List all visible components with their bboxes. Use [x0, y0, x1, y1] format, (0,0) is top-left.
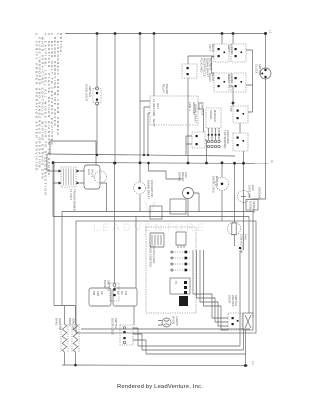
svg-text:IGNITORS: IGNITORS — [226, 130, 230, 144]
wire L2 drop from lock — [245, 330, 247, 366]
node junction oven light on L1 rail — [96, 32, 99, 35]
svg-text:L2: L2 — [251, 362, 255, 366]
svg-text:5W: 5W — [92, 291, 96, 296]
svg-text:10B: 10B — [96, 291, 100, 296]
svg-text:5. VERIFY PROPER OPERATION AFT: 5. VERIFY PROPER OPERATION AFTER SERVICI… — [34, 33, 38, 174]
clock — [255, 64, 272, 79]
transformer feed wires — [47, 154, 59, 216]
svg-text:OVEN LIGHT: OVEN LIGHT — [85, 84, 89, 102]
wire staircase to fan — [149, 163, 183, 179]
wire drop x140 — [139, 34, 141, 212]
gas valve keyhole — [80, 165, 107, 212]
svg-text:3Y: 3Y — [116, 291, 120, 295]
cooling fan — [238, 162, 256, 250]
wire row3 to row4 — [240, 123, 244, 163]
svg-text:REAR: REAR — [211, 44, 215, 52]
connector box A1 — [89, 288, 111, 306]
svg-text:BLOWER: BLOWER — [209, 58, 213, 70]
wire staircase right — [246, 50, 253, 112]
wire feed left front — [232, 34, 234, 45]
svg-text:SWITCH: SWITCH — [114, 318, 118, 329]
svg-text:BOARD: BOARD — [165, 84, 169, 94]
oven control dashed box — [146, 227, 196, 313]
switch left rear — [214, 44, 229, 62]
wire drop x154 into relay board — [153, 34, 155, 97]
connector dark cluster — [179, 296, 188, 306]
svg-text:L1: L1 — [152, 113, 156, 117]
switch lower right — [233, 133, 248, 151]
wire link left column — [212, 57, 215, 73]
wire L2 rail — [62, 364, 248, 367]
svg-text:L1: L1 — [269, 31, 273, 35]
svg-text:GROUND: GROUND — [258, 187, 262, 200]
transformer — [59, 167, 80, 211]
harness top wires — [53, 212, 253, 319]
wire x136 — [135, 216, 137, 288]
door lock motor — [212, 161, 229, 221]
connector comb block — [150, 233, 164, 247]
harness verticals to lock — [193, 250, 228, 330]
convection fan — [227, 162, 247, 253]
svg-text:(CLOCK) ERC: (CLOCK) ERC — [152, 245, 156, 264]
node junction x140 neutral — [139, 161, 142, 164]
switch right rear — [214, 73, 229, 92]
node junction x154 top — [153, 32, 156, 35]
wire feed left rear — [221, 34, 223, 45]
svg-text:GAS: GAS — [87, 169, 91, 175]
node junction x115 top — [114, 32, 117, 35]
door lock switch assembly — [228, 313, 253, 330]
svg-text:OVEN CONTROL: OVEN CONTROL — [149, 245, 153, 268]
node junction L1 corner — [264, 32, 267, 35]
oven lamp — [158, 316, 179, 327]
vent box — [246, 200, 258, 213]
svg-text:TRANSFORMER: TRANSFORMER — [73, 189, 77, 211]
svg-text:LEADVENTURE: LEADVENTURE — [93, 222, 207, 234]
broil ignitor — [68, 306, 79, 366]
svg-text:FRONT: FRONT — [230, 45, 234, 55]
svg-text:OVEN: OVEN — [249, 201, 253, 209]
svg-text:N: N — [270, 161, 274, 163]
svg-text:DOOR LOCK: DOOR LOCK — [111, 318, 115, 335]
svg-text:2R: 2R — [100, 291, 104, 295]
node L2 junction — [244, 364, 247, 367]
connector rows — [170, 251, 190, 272]
control box outer — [76, 221, 256, 333]
svg-text:DOWN DRAFT: DOWN DRAFT — [194, 104, 198, 123]
notice text block — [34, 33, 63, 196]
svg-text:1W: 1W — [124, 291, 128, 296]
left feeder to ignitors — [54, 163, 76, 306]
wire L1 top rail — [65, 33, 266, 35]
svg-text:FAN: FAN — [184, 172, 188, 178]
svg-text:SPARK: SPARK — [209, 110, 213, 120]
connector rect B — [176, 232, 186, 248]
svg-text:LINE 1: LINE 1 — [188, 102, 192, 111]
wire loop above valve — [50, 141, 96, 165]
svg-text:NEUT: NEUT — [152, 119, 156, 127]
node junction x115 neutral — [114, 162, 117, 165]
svg-text:6G: 6G — [120, 291, 124, 295]
svg-text:DOOR: DOOR — [103, 280, 107, 288]
svg-text:FAN: FAN — [251, 185, 255, 191]
svg-text:MODULE: MODULE — [213, 110, 217, 122]
oven light switch — [85, 84, 102, 105]
node junction x140 top — [139, 32, 142, 35]
svg-text:VALVE: VALVE — [91, 169, 95, 178]
wire row2 to row3 — [229, 86, 233, 106]
bake ignitor — [55, 306, 69, 365]
wire drop to lock assembly — [239, 250, 241, 313]
downdraft fan switch — [186, 104, 208, 164]
svg-text:DOWN DRAFT: DOWN DRAFT — [147, 180, 151, 199]
wire neutral rail — [53, 163, 269, 164]
svg-text:MOTOR: MOTOR — [215, 176, 219, 186]
svg-text:COOLING: COOLING — [248, 185, 252, 198]
relay board — [140, 84, 204, 156]
svg-text:SENSOR: SENSOR — [252, 201, 256, 213]
burner switch bank — [208, 32, 253, 163]
svg-text:P1: P1 — [174, 281, 178, 285]
connector box A2 — [113, 288, 137, 306]
svg-text:LAMPS: LAMPS — [175, 316, 179, 326]
down draft fan motor dashed — [134, 180, 155, 199]
connector block C — [170, 278, 190, 294]
svg-text:SWITCH: SWITCH — [258, 64, 262, 75]
svg-text:FAN: FAN — [197, 104, 201, 110]
down draft fan — [178, 172, 200, 216]
svg-text:OUT: OUT — [156, 103, 160, 109]
svg-text:Rendered by LeadVenture, Inc.: Rendered by LeadVenture, Inc. — [117, 384, 203, 390]
svg-text:IGNITOR: IGNITOR — [71, 318, 75, 330]
svg-text:L1 IN: L1 IN — [152, 99, 156, 106]
switch left front — [231, 44, 246, 62]
svg-text:SWITCH: SWITCH — [88, 86, 92, 97]
spark module — [206, 108, 230, 149]
svg-text:12 VOLT: 12 VOLT — [69, 189, 73, 201]
svg-text:CLOCK: CLOCK — [255, 64, 259, 74]
switch top right burner — [233, 106, 248, 123]
door lock assembly text — [228, 295, 239, 307]
svg-text:REAR: REAR — [211, 73, 215, 81]
svg-text:TOP: TOP — [229, 106, 233, 112]
downdraft damper switch upper — [182, 56, 214, 164]
svg-text:RELAY: RELAY — [162, 84, 166, 93]
control box inner bottom — [81, 328, 250, 330]
wire drop x115 — [114, 34, 116, 164]
svg-text:FAN: FAN — [243, 234, 247, 240]
svg-text:SWITCH: SWITCH — [201, 104, 205, 115]
switch right front — [231, 73, 246, 92]
fan housing — [170, 199, 186, 214]
svg-text:FAN MOTOR: FAN MOTOR — [150, 180, 154, 197]
door lock switch lower left — [111, 306, 246, 354]
svg-text:SWITCH: SWITCH — [106, 280, 110, 291]
wire mid rail — [47, 154, 235, 156]
svg-text:IGNITOR: IGNITOR — [58, 318, 62, 330]
door switch — [103, 162, 119, 301]
oven light switch drop wire — [96, 34, 98, 156]
svg-text:FRONT: FRONT — [230, 74, 234, 84]
aux connector left — [150, 206, 162, 219]
svg-text:SWITCH: SWITCH — [234, 295, 238, 306]
wire L1 bus vertical — [251, 34, 266, 200]
